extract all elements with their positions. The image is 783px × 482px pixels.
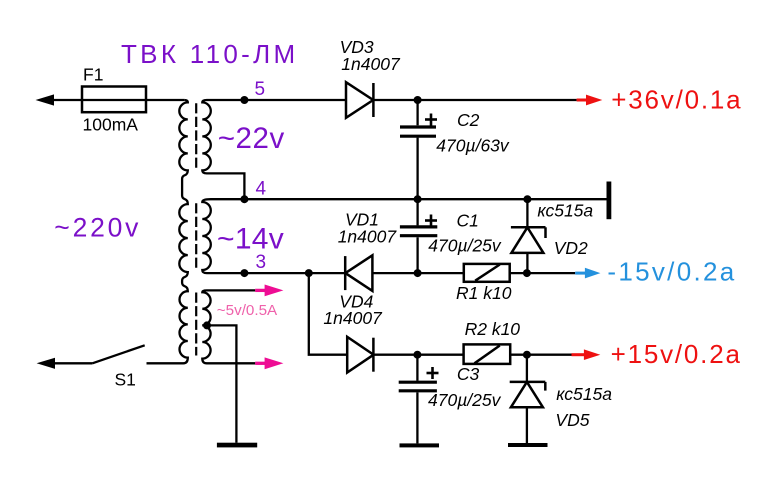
svg-text:кс515а: кс515а <box>556 384 612 404</box>
svg-text:3: 3 <box>256 252 267 273</box>
junction dot C1 bottom <box>414 269 422 277</box>
svg-text:~220v: ~220v <box>54 212 141 242</box>
wire R1 to -15v arrow <box>510 272 576 274</box>
resistor R1 <box>464 264 510 282</box>
junction dot C3 top <box>413 351 421 359</box>
junction dot C2 top <box>414 96 422 104</box>
junction dot pin 5 <box>240 96 248 104</box>
wire VD1 to R1 <box>372 272 463 274</box>
svg-text:+15v/0.2a: +15v/0.2a <box>611 339 742 369</box>
wire R2 to +15v arrow <box>510 354 572 356</box>
svg-text:470µ/25v: 470µ/25v <box>428 235 502 255</box>
diode VD4 <box>347 337 373 373</box>
svg-text:~5v/0.5A: ~5v/0.5A <box>217 302 278 319</box>
ground (VD5) <box>508 443 548 447</box>
ground (5v tap) <box>217 443 257 448</box>
arrow ~5v output (bottom, magenta) <box>255 357 283 369</box>
capacitor C1 <box>416 199 418 225</box>
svg-text:F1: F1 <box>83 65 103 85</box>
resistor R2 <box>464 344 511 364</box>
arrow +36v output <box>577 95 603 106</box>
wire VD4 to R2 <box>373 354 463 356</box>
svg-text:~14v: ~14v <box>217 222 284 255</box>
transformer secondary winding ~22v (pin 5 to pin 4) <box>202 100 244 199</box>
zener VD2 <box>526 199 528 227</box>
diode VD1 <box>345 255 372 291</box>
switch S1 blade <box>92 345 144 363</box>
junction dot VD2 bottom <box>523 269 531 277</box>
svg-text:100mA: 100mA <box>83 115 139 135</box>
junction dot VD5 top <box>523 351 531 359</box>
wire pin3 to VD1 <box>244 272 345 274</box>
label + (C1) <box>425 215 437 227</box>
arrow ~5v output (top, magenta) <box>255 285 283 297</box>
label + (C3) <box>427 367 439 379</box>
svg-text:S1: S1 <box>115 370 136 390</box>
arrow: mains input left (bottom) <box>37 358 55 369</box>
transformer T1 primary winding (~220v side) <box>147 100 188 363</box>
wire VD3 to +36v arrow <box>373 99 576 101</box>
arrow: mains input left (top) <box>36 94 55 105</box>
transformer secondary winding ~14v (pin 4 to pin 3) <box>202 199 244 273</box>
svg-text:+36v/0.1a: +36v/0.1a <box>611 84 742 114</box>
junction dot C2 bottom <box>414 195 422 203</box>
capacitor C3 <box>416 355 418 381</box>
wire ground rail pin 4 <box>244 198 606 200</box>
wire pin5 to VD3 <box>244 99 346 101</box>
junction dot pin 3 <box>240 269 248 277</box>
svg-text:R2 k10: R2 k10 <box>465 319 521 339</box>
arrow -15v output <box>575 268 600 279</box>
svg-text:-15v/0.2a: -15v/0.2a <box>607 257 736 287</box>
svg-text:C2: C2 <box>457 110 480 130</box>
transformer secondary winding ~5v with center tap <box>202 290 255 363</box>
svg-text:C1: C1 <box>457 210 479 230</box>
svg-text:VD2: VD2 <box>554 238 588 258</box>
label + (C2) <box>425 114 437 126</box>
capacitor C2 <box>416 100 418 125</box>
arrow +15v output <box>572 349 601 360</box>
svg-text:1n4007: 1n4007 <box>341 54 401 74</box>
fuse F1 <box>82 87 146 113</box>
svg-text:470µ/25v: 470µ/25v <box>428 390 502 410</box>
switch S1 wire from arrow <box>50 362 92 364</box>
svg-text:кс515а: кс515а <box>537 201 593 221</box>
svg-text:470µ/63v: 470µ/63v <box>436 135 510 155</box>
svg-text:1n4007: 1n4007 <box>323 308 383 328</box>
transformer core (dashed) <box>195 103 197 355</box>
ground (C3) <box>400 443 440 447</box>
wire: mains line from arrow through fuse to primary <box>48 99 184 101</box>
junction dot VD4 branch <box>305 269 313 277</box>
zener VD5 <box>526 355 528 382</box>
junction dot: 5v center tap <box>203 321 211 329</box>
svg-text:5: 5 <box>255 79 266 100</box>
svg-text:R1 k10: R1 k10 <box>456 283 512 303</box>
junction dot pin 4 <box>240 195 248 203</box>
wire: 5v center tap to ground <box>202 325 236 442</box>
wire branch pin3 down to VD4 <box>309 273 347 355</box>
svg-text:ТВК 110-ЛМ: ТВК 110-ЛМ <box>121 39 298 69</box>
svg-text:~22v: ~22v <box>218 122 285 155</box>
diode VD3 <box>346 82 373 118</box>
svg-text:VD5: VD5 <box>555 410 589 430</box>
svg-text:1n4007: 1n4007 <box>338 227 398 247</box>
junction dot VD2 top <box>523 195 531 203</box>
svg-text:C3: C3 <box>457 364 480 384</box>
svg-text:4: 4 <box>256 178 267 199</box>
chassis terminal bar <box>607 182 612 220</box>
